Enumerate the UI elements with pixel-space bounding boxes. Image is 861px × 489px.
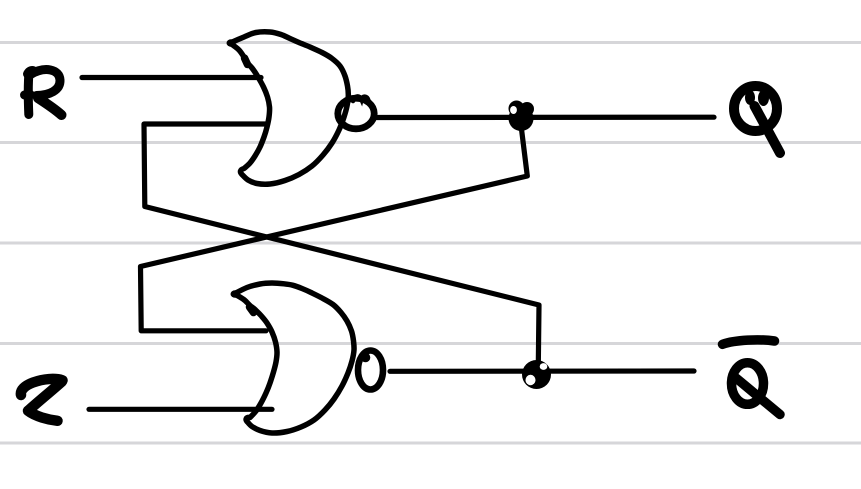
wire U1 output to Q xyxy=(376,115,714,121)
label Q (output) xyxy=(734,86,780,153)
NOR gate U2 (bottom) body xyxy=(234,283,354,433)
junction node on Q wire xyxy=(509,101,535,132)
inverter bubble of U2 xyxy=(358,351,383,390)
ruled line 3 xyxy=(0,242,861,245)
label R (input R) xyxy=(25,70,62,115)
label Q-bar overline xyxy=(723,340,775,344)
label Q-bar letter Q xyxy=(732,363,781,415)
wire U2 output to Q-bar xyxy=(390,368,694,373)
label S (input S) xyxy=(21,379,63,421)
junction node on Q-bar wire xyxy=(522,360,551,389)
ruled line 1 xyxy=(0,41,861,44)
wire R input to gate U1 xyxy=(82,75,261,80)
pen kink on U2 input edge xyxy=(250,307,254,313)
wire top-gate input 2 (feedback from Q-bar) xyxy=(144,124,539,365)
wire junction down to cross-coupled diagonal xyxy=(141,125,528,331)
wire S input to gate U2 xyxy=(89,407,272,412)
NOR gate U1 (top) body xyxy=(230,32,348,184)
pen start blob of U2 bubble xyxy=(361,353,371,363)
ruled line 4 xyxy=(0,342,861,345)
pen blob at U2 top-left beak xyxy=(231,290,240,298)
ruled line 5 xyxy=(0,442,861,445)
ruled line 2 xyxy=(0,141,861,144)
inverter bubble of U1 xyxy=(338,98,374,129)
pen blob at U1 top-left beak xyxy=(227,39,236,47)
pen squiggle at top of U1 bubble xyxy=(353,96,369,101)
pen kink on U1 input edge xyxy=(245,58,248,65)
